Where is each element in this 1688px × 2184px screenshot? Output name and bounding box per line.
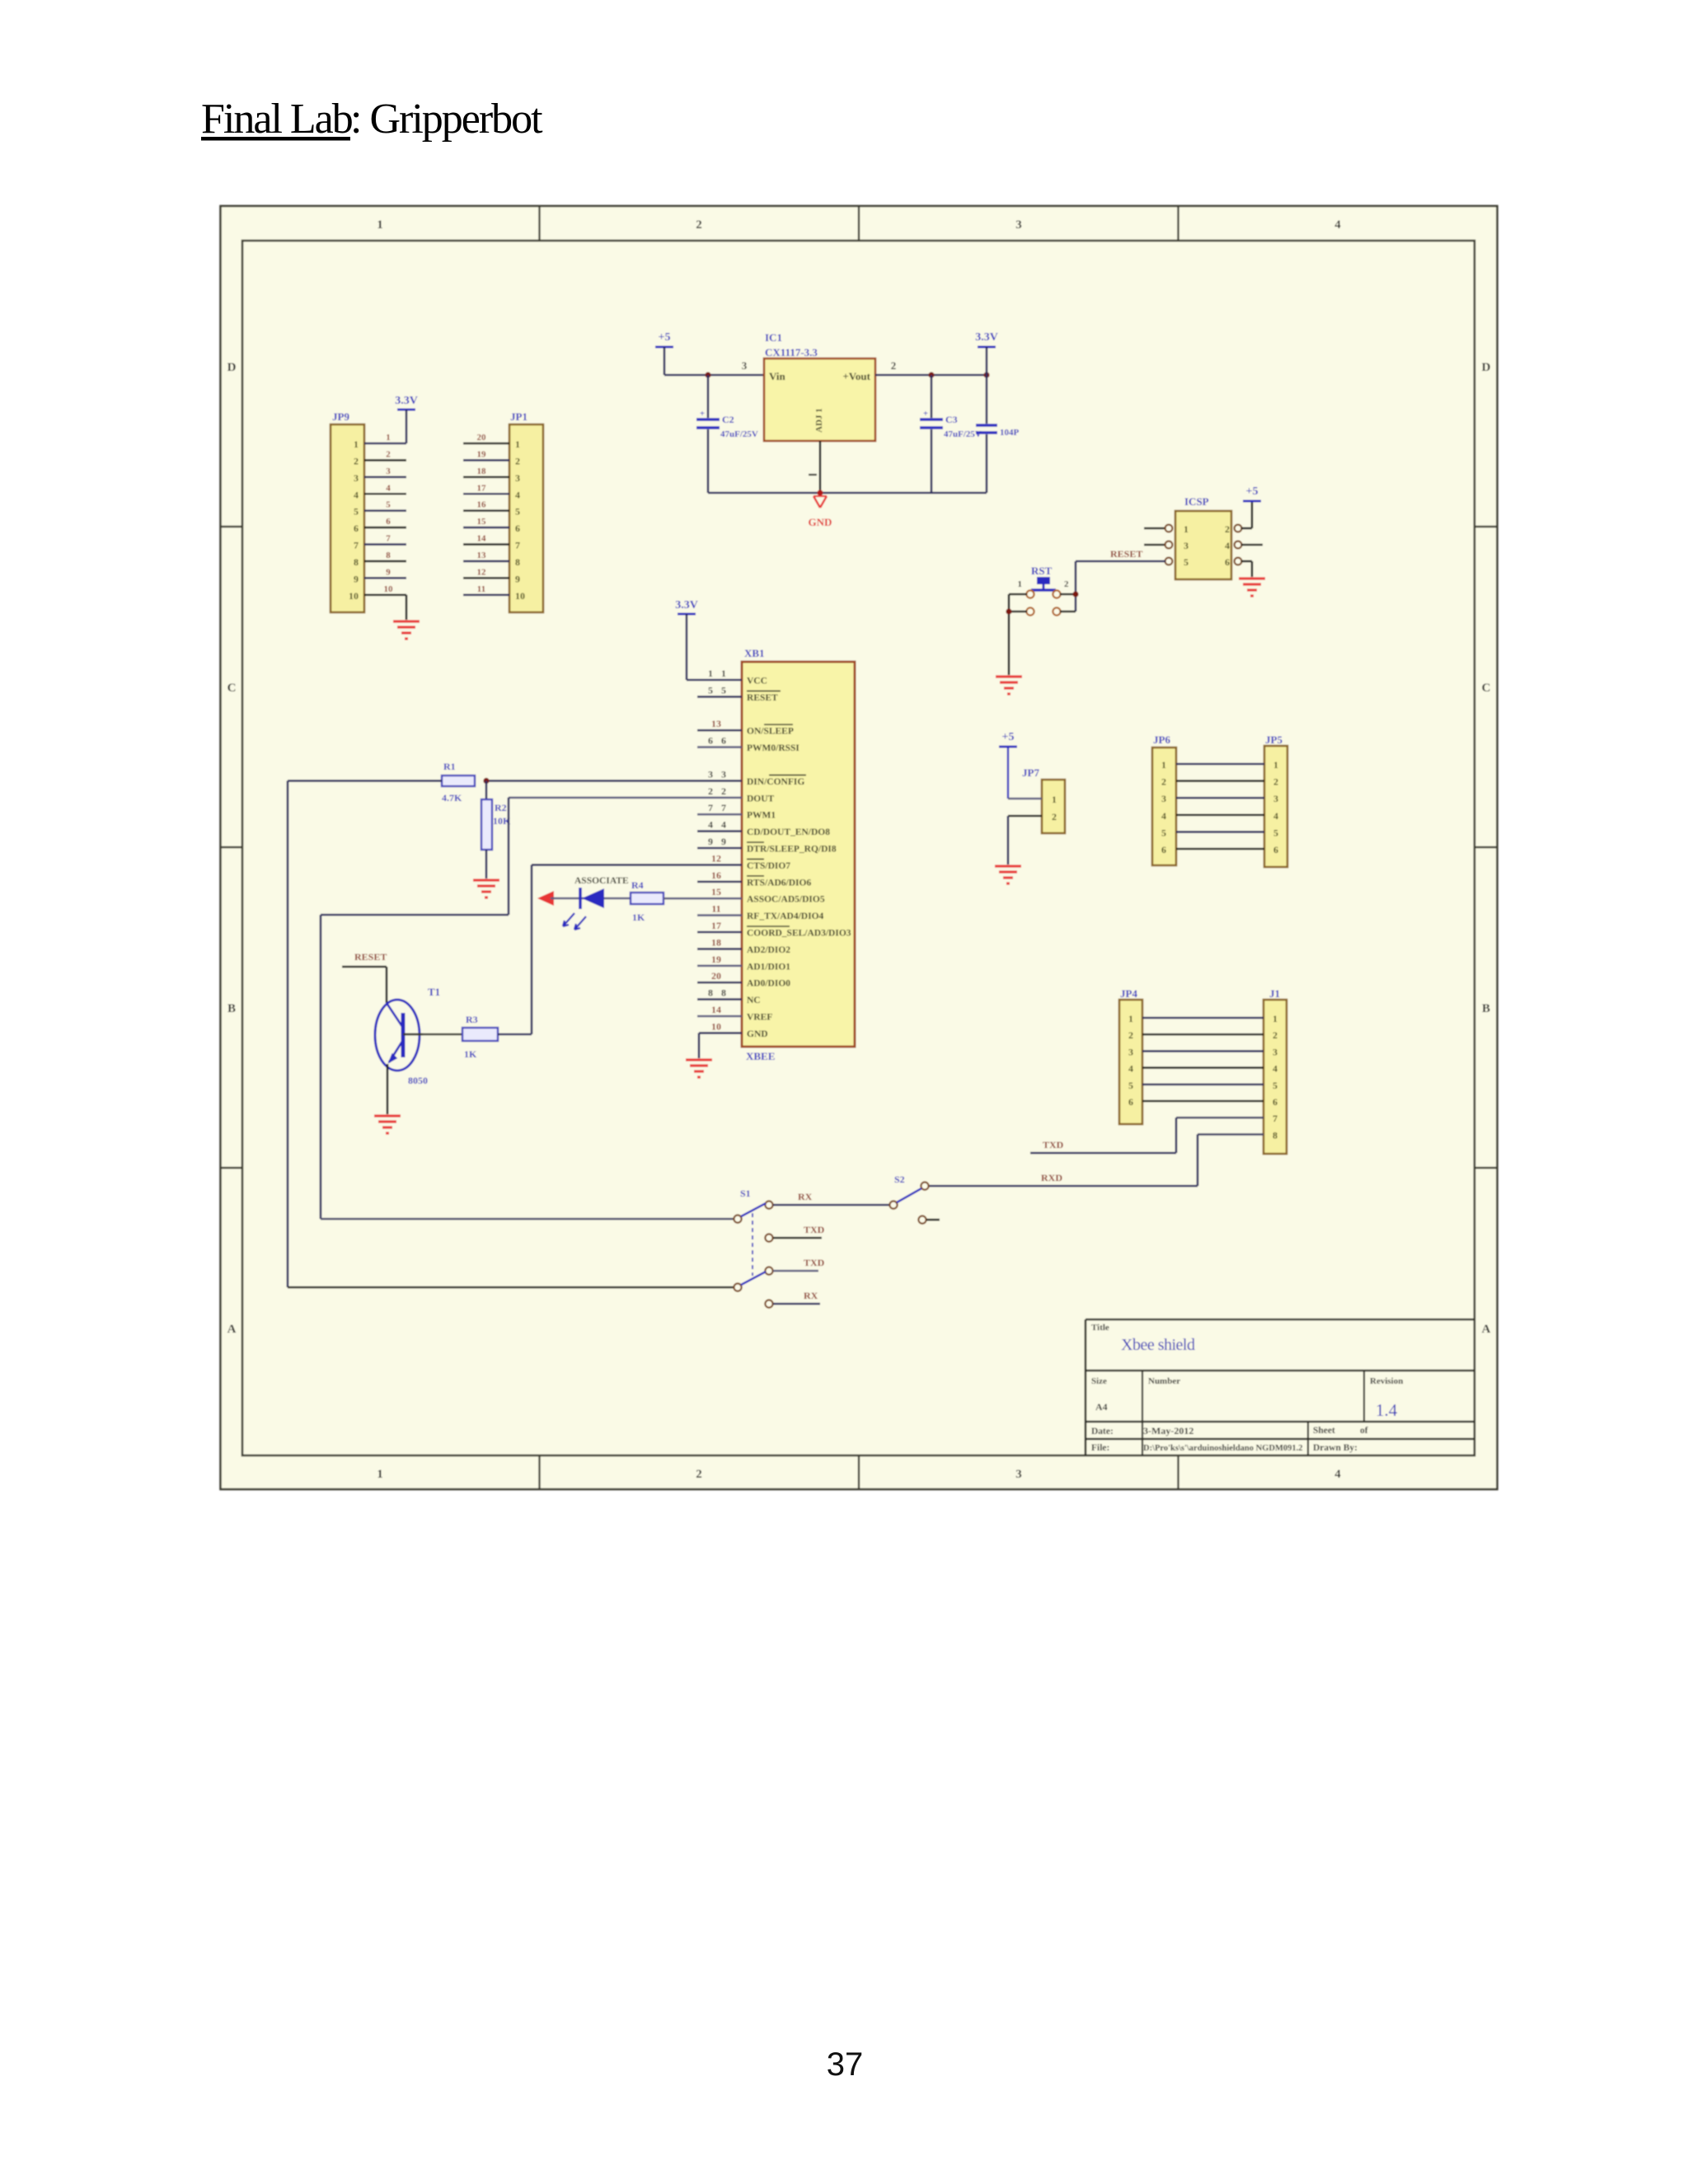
svg-text:CTS/DIO7: CTS/DIO7: [747, 861, 790, 871]
R2 value 10K: [493, 815, 511, 827]
title block label Sheet of: [1313, 1426, 1368, 1436]
svg-text:Date:: Date:: [1091, 1427, 1114, 1436]
title block label Title: [1091, 1323, 1109, 1333]
resistor R2: [481, 780, 492, 879]
svg-text:C: C: [1482, 682, 1491, 695]
svg-text:17: 17: [477, 483, 487, 493]
ground symbol (T1): [374, 1116, 401, 1133]
svg-text:20: 20: [711, 970, 721, 982]
svg-text:3.3V: 3.3V: [395, 395, 418, 407]
svg-text:13: 13: [477, 551, 487, 560]
svg-text:3: 3: [708, 768, 713, 780]
IC1 pin number 3: [742, 359, 748, 372]
border zone letters D,C,B,A left and right: [227, 361, 1491, 1336]
wire S1 RX contact to S2: [773, 1204, 889, 1207]
svg-text:DTR/SLEEP_RQ/DI8: DTR/SLEEP_RQ/DI8: [747, 845, 837, 855]
svg-text:3: 3: [1015, 218, 1022, 232]
svg-text:7: 7: [354, 540, 359, 551]
XB1 pin numbers: [708, 668, 726, 1032]
svg-text:Sheet: Sheet: [1313, 1426, 1335, 1436]
JP7 pin 2 to ground: [1008, 816, 1042, 865]
wire TXD net: J1 pin 7: [1030, 1118, 1264, 1153]
connector J1: [1264, 987, 1287, 1154]
svg-text:4: 4: [721, 819, 726, 831]
svg-text:3-May-2012: 3-May-2012: [1143, 1425, 1193, 1436]
wire S1 TXD contact stub: [773, 1237, 822, 1240]
wire DIN net: XB1 DIN/CONFIG pin to R1: [486, 780, 742, 782]
svg-text:RF_TX/AD4/DIO4: RF_TX/AD4/DIO4: [747, 912, 824, 921]
connector JP9: [331, 410, 364, 612]
svg-text:Drawn By:: Drawn By:: [1313, 1443, 1357, 1453]
svg-text:3: 3: [1273, 793, 1278, 804]
svg-text:1: 1: [1184, 523, 1189, 535]
ground symbol (XB1 GND): [686, 1060, 712, 1077]
RST pin number 2: [1064, 579, 1069, 589]
connector JP1: [509, 410, 543, 612]
svg-text:S1: S1: [740, 1188, 751, 1199]
wire T1 emitter to ground: [387, 1064, 389, 1114]
ground symbol (ICSP pin 6): [1239, 579, 1265, 596]
push button RST: [1026, 565, 1060, 616]
power symbol 3.3V (XB1 VCC): [675, 599, 698, 680]
svg-text:7: 7: [386, 534, 391, 544]
ground symbol GND (power ground arrow): [809, 496, 832, 528]
svg-text:1: 1: [377, 218, 383, 232]
power symbol +5 (ICSP): [1243, 485, 1261, 501]
svg-text:5: 5: [1128, 1080, 1133, 1091]
revision 1.4: [1376, 1400, 1398, 1420]
wire S1 TXD contact 2 stub: [773, 1270, 818, 1272]
svg-text:2: 2: [1128, 1029, 1133, 1041]
svg-text:Final Lab: Final Lab: [201, 96, 353, 143]
svg-text:4: 4: [1334, 218, 1341, 232]
svg-text:PWM0/RSSI: PWM0/RSSI: [747, 743, 799, 753]
net label RESET: [1110, 548, 1142, 560]
svg-text:+5: +5: [1002, 731, 1015, 743]
svg-text:3: 3: [721, 768, 726, 780]
svg-text:8: 8: [515, 556, 520, 568]
svg-text:4: 4: [386, 483, 391, 493]
svg-text:2: 2: [1161, 776, 1166, 788]
svg-text:AD1/DIO1: AD1/DIO1: [747, 962, 790, 972]
svg-text:6: 6: [515, 523, 520, 534]
XB1 pin stub wires: [697, 696, 742, 1016]
svg-text:1: 1: [1161, 759, 1166, 771]
svg-text:B: B: [227, 1002, 236, 1015]
net label RX (S1 bottom): [804, 1290, 818, 1301]
svg-text:File:: File:: [1091, 1443, 1109, 1453]
svg-text:ON/SLEEP: ON/SLEEP: [747, 727, 794, 737]
svg-text:ICSP: ICSP: [1184, 495, 1209, 508]
ICSP pin 3 stub: [1144, 541, 1172, 549]
svg-text:8: 8: [386, 551, 391, 560]
svg-text:Number: Number: [1148, 1376, 1180, 1386]
JP1 pin stub wires: [463, 443, 509, 595]
IC1 pin number 2: [891, 359, 897, 372]
wire +5 to IC1 Vin: [664, 374, 764, 377]
svg-text:11: 11: [711, 903, 720, 915]
sheet size A4: [1095, 1401, 1108, 1413]
svg-text:5: 5: [354, 506, 359, 518]
svg-text:C3: C3: [945, 414, 958, 425]
svg-text:8: 8: [721, 987, 726, 999]
resistor R4: [631, 893, 663, 904]
wire 3.3V to XB1 VCC pin: [687, 679, 742, 682]
wire regulator ground rail: [708, 492, 987, 494]
svg-text:7: 7: [721, 802, 726, 813]
wires JP4 to J1: [1142, 1018, 1264, 1101]
svg-text:3: 3: [386, 466, 391, 476]
svg-text:1: 1: [708, 668, 713, 679]
svg-text:9: 9: [721, 836, 726, 847]
ICSP pin 2 to +5: [1235, 501, 1252, 532]
transistor T1 8050: [375, 1000, 423, 1071]
svg-text:7: 7: [515, 540, 520, 551]
svg-text:2: 2: [515, 455, 520, 466]
title block label Date: [1091, 1427, 1114, 1436]
svg-text:NC: NC: [747, 996, 761, 1005]
svg-text:JP1: JP1: [510, 410, 527, 423]
IC1 ADJ/GND pin stem with pin 1 mark: [809, 441, 820, 493]
svg-text:GND: GND: [747, 1029, 768, 1039]
svg-text:2: 2: [708, 785, 713, 797]
svg-text:5: 5: [1161, 827, 1166, 838]
wire RXD net: J1 pin 8 to S2: [929, 1134, 1264, 1186]
svg-text:3: 3: [354, 472, 359, 484]
svg-text:CX1117-3.3: CX1117-3.3: [765, 346, 818, 359]
svg-text:IC1: IC1: [765, 331, 782, 344]
svg-text:3: 3: [1015, 1468, 1022, 1481]
wire IC1 +Vout to 3.3V: [875, 374, 987, 377]
wires JP6 to JP5: [1176, 764, 1264, 849]
R4 reference label: [631, 879, 644, 891]
svg-text:8050: 8050: [408, 1075, 428, 1086]
svg-text:10: 10: [384, 584, 394, 594]
wire JP9 pin 10 to ground: [406, 595, 408, 620]
net label TXD (S1 lower): [804, 1257, 825, 1268]
svg-text:5: 5: [1273, 1080, 1278, 1091]
svg-text:10: 10: [349, 590, 359, 602]
svg-text:1: 1: [1128, 1013, 1133, 1024]
T1 value 8050: [408, 1075, 428, 1086]
svg-text:+: +: [923, 409, 928, 419]
switch S2 (SPDT): [889, 1174, 940, 1224]
svg-text:Xbee shield: Xbee shield: [1121, 1336, 1195, 1354]
svg-text:1: 1: [354, 438, 359, 450]
svg-text:1: 1: [386, 433, 391, 443]
R1 value 4.7K: [442, 792, 462, 804]
ground symbol (JP9): [393, 621, 420, 639]
svg-text:19: 19: [477, 449, 487, 459]
svg-text:JP7: JP7: [1022, 766, 1039, 779]
resistor R1: [442, 776, 475, 786]
svg-text:11: 11: [477, 584, 485, 594]
svg-text:VREF: VREF: [747, 1013, 772, 1023]
svg-text:15: 15: [477, 517, 487, 527]
junction RST left: [1006, 608, 1011, 614]
svg-text:RST: RST: [1031, 565, 1053, 577]
file path: [1143, 1444, 1303, 1453]
svg-text:3: 3: [742, 359, 748, 372]
net label RESET (T1 base): [354, 951, 387, 963]
power arrow (LED supply, red): [537, 891, 554, 906]
svg-text:of: of: [1360, 1426, 1368, 1436]
svg-text:5: 5: [386, 500, 391, 510]
capacitor C2 47uF/25V: [696, 375, 758, 493]
svg-text:: Gripperbot: : Gripperbot: [350, 96, 543, 143]
svg-text:+: +: [700, 409, 705, 419]
connector JP7: [1022, 766, 1065, 833]
svg-text:RX: RX: [798, 1191, 813, 1202]
title block label Size: [1091, 1376, 1107, 1386]
svg-text:DOUT: DOUT: [747, 794, 775, 804]
svg-text:47uF/25V: 47uF/25V: [944, 429, 982, 439]
page number 37: [827, 2046, 864, 2083]
svg-text:JP9: JP9: [332, 410, 349, 423]
LED ASSOCIATE: [563, 888, 604, 930]
T1 reference label: [428, 986, 440, 998]
svg-text:3: 3: [1161, 793, 1166, 804]
svg-text:4: 4: [1161, 810, 1166, 822]
title block label Revision: [1370, 1376, 1403, 1386]
svg-text:47uF/25V: 47uF/25V: [720, 429, 758, 439]
title block label Number: [1148, 1376, 1180, 1386]
svg-text:3: 3: [1128, 1046, 1133, 1057]
svg-text:1K: 1K: [632, 912, 645, 923]
svg-text:C2: C2: [722, 414, 734, 425]
svg-text:8: 8: [708, 987, 713, 999]
junction at 3.3V column: [983, 372, 989, 377]
svg-text:1: 1: [1018, 579, 1023, 589]
power symbol 3.3V (JP9 pin 1): [395, 395, 418, 443]
svg-text:J1: J1: [1269, 987, 1280, 1000]
resistor R3: [462, 1028, 498, 1041]
JP9 wire pin numbers 1-10: [384, 433, 394, 594]
svg-text:5: 5: [515, 506, 520, 518]
svg-text:4: 4: [1334, 1468, 1341, 1481]
document heading "Final Lab: Gripperbot": [201, 96, 543, 143]
wire T1 collector to R3: [423, 1033, 462, 1036]
junction at C2 top: [705, 372, 710, 377]
svg-text:1: 1: [377, 1468, 383, 1481]
svg-text:7: 7: [708, 802, 713, 813]
svg-text:5: 5: [1184, 556, 1189, 568]
svg-text:COORD_SEL/AD3/DIO3: COORD_SEL/AD3/DIO3: [747, 929, 851, 939]
net label TXD (S1): [804, 1224, 825, 1235]
svg-text:CD/DOUT_EN/DO8: CD/DOUT_EN/DO8: [747, 827, 830, 837]
svg-text:4: 4: [1273, 810, 1278, 822]
svg-text:TXD: TXD: [1043, 1139, 1064, 1151]
title block: [1085, 1319, 1475, 1455]
svg-text:14: 14: [477, 534, 487, 544]
svg-text:9: 9: [354, 573, 359, 584]
svg-text:S2: S2: [894, 1174, 905, 1185]
svg-text:PWM1: PWM1: [747, 811, 776, 821]
svg-text:A: A: [1482, 1323, 1491, 1336]
sheet outer border frame: [221, 206, 1498, 1489]
svg-text:A: A: [227, 1323, 237, 1336]
svg-text:13: 13: [711, 718, 721, 729]
junction at C3 top: [928, 372, 934, 377]
svg-text:1: 1: [1273, 759, 1278, 771]
border column ticks: [540, 206, 1179, 1489]
svg-text:2: 2: [354, 455, 359, 466]
svg-text:R3: R3: [466, 1014, 478, 1025]
wire RST right pins to RESET net: [1060, 594, 1076, 612]
svg-text:2: 2: [721, 785, 726, 797]
svg-text:RESET: RESET: [747, 693, 778, 703]
date 3-May-2012: [1143, 1425, 1193, 1436]
svg-text:R4: R4: [631, 879, 644, 891]
svg-text:15: 15: [711, 886, 721, 898]
svg-text:6: 6: [1128, 1096, 1133, 1108]
svg-text:4: 4: [1225, 540, 1230, 551]
svg-text:R1: R1: [443, 761, 456, 772]
svg-text:9: 9: [708, 836, 713, 847]
R1 reference label: [443, 761, 456, 772]
R3 value 1K: [464, 1048, 477, 1060]
sheet inner border frame: [242, 241, 1475, 1455]
svg-text:3.3V: 3.3V: [675, 599, 698, 612]
svg-text:D: D: [227, 361, 237, 374]
wire XB1 GND pin to ground: [699, 1033, 742, 1058]
R4 value 1K: [632, 912, 645, 923]
svg-text:D: D: [1482, 361, 1491, 374]
connector ICSP: [1175, 495, 1231, 579]
svg-text:8: 8: [354, 556, 359, 568]
svg-text:RX: RX: [804, 1290, 818, 1301]
ICSP pin 4 stub: [1235, 541, 1263, 549]
capacitor C3 47uF/25V: [920, 375, 982, 493]
svg-text:RXD: RXD: [1041, 1172, 1062, 1183]
ICSP pin 5 (RESET net): [1165, 558, 1173, 565]
net label TXD (J1): [1043, 1139, 1064, 1151]
connector JP5: [1264, 733, 1287, 867]
svg-text:4: 4: [1273, 1063, 1278, 1075]
svg-text:12: 12: [477, 567, 487, 577]
svg-text:ASSOCIATE: ASSOCIATE: [574, 876, 629, 886]
svg-text:18: 18: [477, 466, 487, 476]
svg-text:+5: +5: [1246, 485, 1259, 498]
svg-text:20: 20: [477, 433, 487, 443]
wire S1 RX contact 2 stub: [773, 1303, 820, 1305]
ground symbol (RST): [996, 677, 1022, 694]
junction RST right: [1072, 591, 1078, 597]
wire CTS net: R3 up to XB1 CTS/DIO7: [498, 865, 742, 1034]
svg-text:16: 16: [711, 869, 721, 881]
net label RXD: [1041, 1172, 1062, 1183]
svg-text:2: 2: [1225, 523, 1230, 535]
svg-text:2: 2: [386, 449, 391, 459]
svg-text:1: 1: [515, 438, 520, 450]
svg-text:5: 5: [708, 684, 713, 696]
svg-text:RESET: RESET: [354, 951, 387, 963]
svg-text:16: 16: [477, 500, 487, 510]
svg-text:2: 2: [891, 359, 897, 372]
svg-text:6: 6: [1273, 844, 1278, 855]
svg-text:1: 1: [1052, 794, 1057, 805]
svg-text:5: 5: [1273, 827, 1278, 838]
svg-text:3: 3: [1184, 540, 1189, 551]
svg-text:Vin: Vin: [769, 370, 786, 382]
sheet title Xbee shield: [1121, 1336, 1195, 1354]
ICSP pin 1 stub: [1144, 525, 1172, 532]
svg-text:104P: 104P: [1000, 428, 1020, 438]
svg-text:19: 19: [711, 954, 721, 965]
svg-text:TXD: TXD: [804, 1224, 825, 1235]
svg-text:14: 14: [711, 1004, 721, 1015]
R2 reference label: [495, 802, 507, 813]
junction R1/R2 node: [483, 778, 489, 784]
svg-text:GND: GND: [809, 516, 832, 528]
JP1 wire pin numbers 20-11: [477, 433, 487, 594]
svg-text:XB1: XB1: [744, 647, 765, 659]
svg-text:37: 37: [827, 2046, 864, 2083]
svg-text:2: 2: [696, 218, 702, 232]
connector JP4: [1119, 987, 1142, 1124]
voltage regulator IC1 CX1117-3.3: [764, 331, 875, 441]
RST pin number 1: [1018, 579, 1023, 589]
svg-text:6: 6: [354, 523, 359, 534]
svg-text:8: 8: [1273, 1129, 1278, 1141]
svg-text:T1: T1: [428, 986, 440, 998]
svg-text:1: 1: [721, 668, 726, 679]
svg-text:+5: +5: [659, 331, 671, 344]
svg-text:+Vout: +Vout: [842, 370, 870, 382]
svg-text:C: C: [227, 682, 237, 695]
svg-text:VCC: VCC: [747, 677, 767, 687]
svg-text:18: 18: [711, 936, 721, 948]
svg-text:D:\Pro'ks\s'\arduinoshieldano: D:\Pro'ks\s'\arduinoshieldano NGDM091.2: [1143, 1444, 1303, 1453]
svg-text:2: 2: [1273, 1029, 1278, 1041]
svg-text:10: 10: [515, 590, 525, 602]
net label RX (S1 top): [798, 1191, 813, 1202]
connector JP6: [1152, 733, 1176, 865]
svg-text:2: 2: [1052, 811, 1057, 823]
border zone numbers 1-4 top and bottom: [377, 218, 1341, 1481]
svg-text:4: 4: [1128, 1063, 1133, 1075]
svg-text:Title: Title: [1091, 1323, 1109, 1333]
svg-text:1K: 1K: [464, 1048, 477, 1060]
svg-text:JP4: JP4: [1120, 987, 1137, 1000]
wire RESET to T1 base: [342, 967, 387, 1003]
svg-text:Size: Size: [1091, 1376, 1107, 1386]
svg-text:5: 5: [721, 684, 726, 696]
power symbol 3.3V (regulator output): [975, 331, 998, 375]
svg-text:6: 6: [1273, 1096, 1278, 1108]
svg-text:JP6: JP6: [1153, 733, 1170, 746]
svg-text:JP5: JP5: [1265, 733, 1282, 746]
svg-text:2: 2: [1273, 776, 1278, 788]
svg-text:6: 6: [1161, 844, 1166, 855]
net label ASSOCIATE: [574, 876, 629, 886]
svg-text:2: 2: [1064, 579, 1069, 589]
title block label File: [1091, 1443, 1109, 1453]
svg-text:6: 6: [386, 517, 391, 527]
svg-text:B: B: [1482, 1002, 1490, 1015]
capacitor 104P: [976, 375, 1020, 493]
svg-text:RTS/AD6/DIO6: RTS/AD6/DIO6: [747, 878, 811, 888]
svg-text:4: 4: [354, 489, 359, 500]
svg-text:AD2/DIO2: AD2/DIO2: [747, 945, 790, 955]
svg-text:4.7K: 4.7K: [442, 792, 462, 804]
svg-text:1: 1: [1273, 1013, 1278, 1024]
Xbee module XB1: [742, 647, 855, 1062]
JP7 pin 1 stub: [1008, 798, 1042, 800]
svg-text:6: 6: [708, 735, 713, 747]
switch S1 (DPDT): [734, 1188, 772, 1308]
svg-text:9: 9: [515, 573, 520, 584]
